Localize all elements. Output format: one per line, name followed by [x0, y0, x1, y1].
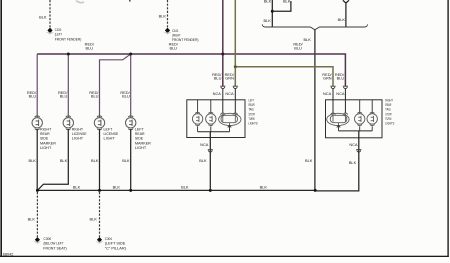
label RED/BLU (bus left) [85, 41, 95, 50]
svg-text:GRN: GRN [323, 76, 332, 81]
lamp RIGHT REAR SIDE MARKER LIGHT [32, 116, 42, 130]
border bottom [0, 256, 449, 257]
svg-text:FRONT FENDER): FRONT FENDER) [55, 36, 82, 41]
label LEFT REAR TAIL/STOP/TURN LIGHTS [249, 98, 258, 126]
svg-text:LIGHT: LIGHT [72, 136, 84, 141]
label C100 (LEFT FRONT FENDER) [55, 27, 82, 42]
label RED/BLU (left box drop) [212, 72, 222, 81]
wire BLK below lamp2 with hook to bus [37, 129, 68, 190]
svg-text:FRONT SEAT): FRONT SEAT) [43, 245, 67, 250]
label RED/GRN (right box drop) [322, 72, 332, 81]
lamp tail (left box, inner 1) [192, 100, 202, 132]
wire RED/BLU drop to lamp1 [36, 54, 38, 117]
brace group (BLK wires bundle) [262, 24, 367, 29]
wire BLK below lamp3 [99, 129, 101, 190]
label RIGHT REAR TAIL/STOP/TURN LIGHTS [385, 98, 394, 126]
wire BLK dashed to connector C100 [49, 0, 51, 28]
wire BLK branch hook [272, 1, 291, 11]
lamp RIGHT LICENSE LIGHT [63, 116, 73, 130]
label RED/BLU (lamp4 drop) [120, 90, 130, 99]
svg-text:BLK: BLK [91, 158, 99, 163]
label RED/BLU (right box drop) [335, 72, 345, 81]
label RED/BLU (lamp1 drop) [27, 90, 37, 99]
lamp tail (right box, inner 1) [355, 100, 365, 131]
wire stub into right box pin2 [344, 89, 346, 113]
svg-text:BLK: BLK [263, 18, 271, 23]
terminal (right box RED/GRN) [330, 86, 335, 88]
terminal (right box ground wire) [356, 150, 361, 152]
svg-text:68042: 68042 [3, 252, 14, 256]
label C101 (RIGHT FRONT FENDER) [172, 28, 199, 42]
wire BLK dashed to connector C304 [99, 192, 101, 237]
svg-text:BLU: BLU [170, 45, 178, 50]
label RED/BLU (bus right) [293, 41, 303, 50]
label C304 (LEFT SIDE "C" PILLAR) [105, 236, 127, 251]
connector C100 symbol [46, 28, 54, 35]
label RED/BLU (lamp3 drop) [89, 90, 99, 99]
svg-text:BLK: BLK [181, 185, 189, 190]
svg-text:BLK: BLK [260, 185, 268, 190]
svg-text:NCA: NCA [349, 142, 358, 147]
svg-text:BLK: BLK [29, 158, 37, 163]
wire collector inside left box [198, 131, 230, 133]
svg-text:BLK: BLK [199, 158, 207, 163]
border left [0, 0, 2, 257]
wire BLK from right box to ground bus [316, 131, 359, 191]
svg-text:BLK: BLK [159, 13, 167, 18]
wire BLK dashed to connector C101 [167, 0, 169, 28]
svg-text:BLU: BLU [214, 76, 222, 81]
wire RED/BLU drop to left rear marker light [130, 54, 132, 117]
svg-text:BLK: BLK [39, 15, 47, 20]
svg-text:LIGHTS: LIGHTS [385, 120, 394, 125]
wire RED/BLU offset drop to left license light [100, 54, 131, 117]
node splice on bus [67, 53, 70, 56]
wire BLK ground bus [37, 189, 315, 191]
lamp dual filament stop/turn (right box) [327, 113, 349, 131]
svg-text:BLU: BLU [122, 94, 130, 99]
svg-text:BLU: BLU [91, 94, 99, 99]
wire RED/BLU drop to right rear marker light [67, 54, 69, 117]
lamp tail (left box, inner 2) [206, 100, 216, 132]
lamp dual filament stop/turn (left box) [219, 113, 241, 132]
svg-text:BLK: BLK [264, 0, 272, 4]
wire BLK vertical with splice (top right) [271, 0, 273, 27]
label LEFT REAR SIDE MARKER LIGHT [135, 126, 151, 150]
border right [447, 0, 448, 257]
svg-text:LIGHT: LIGHT [40, 145, 52, 150]
label LEFT LICENSE LIGHT [104, 126, 119, 140]
svg-text:BLK: BLK [303, 37, 311, 42]
node splice RED/GRN [234, 65, 237, 68]
label RIGHT REAR SIDE MARKER LIGHT [40, 126, 56, 150]
svg-text:BLU: BLU [86, 45, 94, 50]
terminal (right box RED/BLU) [343, 86, 348, 88]
wire stub into right box pin1 [332, 89, 334, 113]
wire BLK from left box to ground bus [209, 132, 211, 191]
wire RED/BLU main bus [37, 54, 345, 86]
label C300 (BELOW LEFT FRONT SEAT) [43, 236, 67, 251]
svg-text:NCA: NCA [225, 91, 234, 96]
svg-text:GRN: GRN [225, 76, 234, 81]
wire RED/BLU drop to left rear lights [222, 0, 224, 86]
svg-text:BLK: BLK [122, 158, 130, 163]
component box RIGHT REAR TAIL/STOP/TURN LIGHTS [326, 100, 383, 138]
svg-text:BLK: BLK [305, 158, 313, 163]
artifact tick top edge [129, 0, 131, 2]
connector C304 symbol [96, 237, 104, 244]
wire BLK dashed to connector C300 [36, 192, 38, 237]
svg-text:BLU: BLU [29, 94, 37, 99]
svg-text:BLK: BLK [28, 216, 36, 221]
wire stub into left box pin2 [234, 89, 236, 113]
svg-text:NCA: NCA [336, 91, 345, 96]
svg-text:NCA: NCA [213, 91, 222, 96]
svg-text:"C" PILLAR): "C" PILLAR) [105, 245, 127, 250]
svg-text:LIGHT: LIGHT [135, 145, 147, 150]
label RED/BLU (lamp2 drop) [58, 90, 68, 99]
svg-text:BLU: BLU [294, 45, 302, 50]
terminal (left box ground wire) [208, 150, 213, 152]
wire BLK with fork (top right second) [343, 0, 349, 27]
node ground bus junctions [36, 189, 317, 192]
component box LEFT REAR TAIL/STOP/TURN LIGHTS [187, 100, 245, 138]
svg-text:BLK: BLK [349, 160, 357, 165]
connector C101 symbol [164, 28, 172, 35]
svg-text:BLU: BLU [337, 76, 345, 81]
terminal (left box RED/BLU) [220, 86, 225, 88]
svg-text:BLU: BLU [60, 94, 68, 99]
svg-text:BLK: BLK [60, 158, 68, 163]
svg-text:LIGHT: LIGHT [104, 136, 116, 141]
node splice on bus [129, 53, 132, 56]
label RED/BLU (bus mid) [169, 41, 179, 50]
connector C300 symbol [33, 237, 41, 244]
lamp LEFT REAR SIDE MARKER LIGHT [126, 116, 136, 130]
wire stub into left box pin1 [222, 89, 224, 113]
svg-text:BLK: BLK [113, 185, 121, 190]
lamp tail (right box, inner 2) [367, 100, 377, 131]
svg-text:NCA: NCA [323, 91, 332, 96]
wire BLK from brace down to ground bus [314, 30, 316, 191]
node splice dot [271, 10, 274, 13]
terminal (left box RED/GRN) [233, 86, 238, 88]
wire collector inside right box [339, 130, 373, 132]
svg-text:BLK: BLK [73, 185, 81, 190]
label RED/GRN (left box drop) [225, 72, 235, 81]
svg-text:BLK: BLK [89, 216, 97, 221]
wire BLK below lamp4 [130, 129, 132, 190]
artifact smudge top edge [76, 1, 84, 3]
wire BLK below lamp1 [36, 129, 38, 190]
svg-text:NCA: NCA [200, 142, 209, 147]
wire RED/GRN drop and branch [235, 0, 333, 86]
svg-text:LIGHTS: LIGHTS [249, 120, 258, 125]
lamp LEFT LICENSE LIGHT [94, 116, 104, 130]
svg-text:BLK: BLK [338, 17, 346, 22]
label RIGHT LICENSE LIGHT [72, 126, 87, 140]
node splice RED/BLU on bus [221, 53, 224, 56]
svg-text:BLK: BLK [283, 0, 291, 4]
